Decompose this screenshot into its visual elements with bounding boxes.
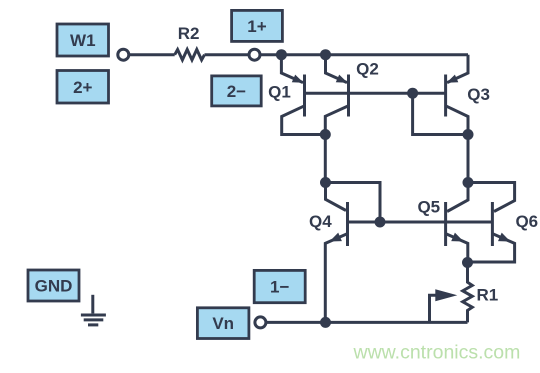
svg-text:R2: R2 xyxy=(178,24,200,43)
svg-text:Q4: Q4 xyxy=(309,212,332,231)
svg-text:Q6: Q6 xyxy=(515,212,538,231)
svg-text:1+: 1+ xyxy=(247,17,266,36)
svg-text:Q3: Q3 xyxy=(467,85,490,104)
svg-text:Q2: Q2 xyxy=(356,59,379,78)
svg-text:Vn: Vn xyxy=(212,314,234,333)
svg-text:2−: 2− xyxy=(227,82,246,101)
svg-text:Q1: Q1 xyxy=(268,83,291,102)
svg-text:1−: 1− xyxy=(270,278,289,297)
svg-text:GND: GND xyxy=(35,277,73,296)
svg-text:W1: W1 xyxy=(70,31,96,50)
svg-text:2+: 2+ xyxy=(73,78,92,97)
svg-text:R1: R1 xyxy=(477,285,499,304)
svg-text:www.cntronics.com: www.cntronics.com xyxy=(353,342,521,364)
svg-text:Q5: Q5 xyxy=(417,198,440,217)
